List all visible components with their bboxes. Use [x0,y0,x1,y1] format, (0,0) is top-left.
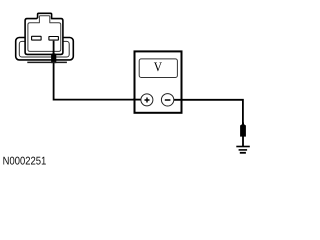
connector C1 flange inner line [19,41,69,57]
voltmeter V1 box [135,51,182,112]
voltmeter display window [139,59,177,78]
wire from meter - terminal to ground [168,100,243,124]
wire from connector pin to meter + terminal [54,41,146,100]
connector C1 upper body inner line [28,16,61,52]
connector C1 right pin slot [49,37,59,41]
voltmeter V label [154,62,162,71]
ground terminal pin (black) [240,123,246,137]
ground lead wire [242,136,244,146]
ground symbol bar 3 [240,152,246,154]
ground symbol bar 2 [239,149,248,151]
voltmeter + terminal circle [141,94,153,106]
ground symbol bar 1 [236,146,250,148]
connector C1 left pin slot [32,36,41,40]
connector shadow bar [27,61,67,63]
voltmeter - terminal circle [161,94,173,106]
plus sign [145,98,150,103]
connector pin terminal (black) [51,52,56,64]
connector C1 flange outer [16,38,74,60]
connector C1 upper body with lock tab [25,13,63,54]
minus sign [165,99,171,101]
wire stub into meter (redraw over box edge) [133,99,146,101]
figure number label N0002251 [3,157,45,165]
